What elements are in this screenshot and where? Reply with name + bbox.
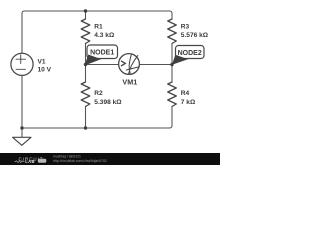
svg-text:http://circuitlab.com/c/hw9hlj: http://circuitlab.com/c/hw9hljah5782 xyxy=(53,159,107,163)
svg-text:LAB: LAB xyxy=(25,159,35,164)
svg-text:5.398 kΩ: 5.398 kΩ xyxy=(94,99,122,106)
svg-text:R1: R1 xyxy=(94,23,103,30)
svg-text:NODE1: NODE1 xyxy=(90,50,114,57)
svg-text:mushtaq / lab0121: mushtaq / lab0121 xyxy=(53,155,81,159)
svg-text:R3: R3 xyxy=(181,23,190,30)
svg-text:VM1: VM1 xyxy=(122,77,137,86)
svg-text:R2: R2 xyxy=(94,90,103,97)
svg-text:7 kΩ: 7 kΩ xyxy=(181,99,196,106)
svg-text:R4: R4 xyxy=(181,90,190,97)
svg-text:V1: V1 xyxy=(38,58,46,65)
svg-text:5.576 kΩ: 5.576 kΩ xyxy=(181,32,209,39)
svg-text:10 V: 10 V xyxy=(38,67,52,74)
svg-text:NODE2: NODE2 xyxy=(178,50,202,57)
svg-text:4.3 kΩ: 4.3 kΩ xyxy=(94,32,115,39)
